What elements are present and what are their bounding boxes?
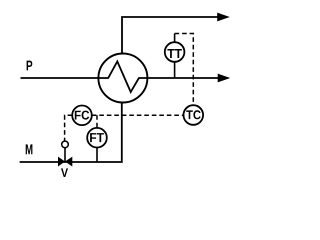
wire FT stem to M line bbox=[96, 147, 98, 162]
label valve V bbox=[61, 168, 68, 177]
wire valve actuator stem bbox=[64, 148, 66, 162]
wire stream M line with riser to exchanger bottom bbox=[20, 102, 122, 162]
signal dashed TT to TC bbox=[175, 34, 194, 106]
label stream P bbox=[27, 61, 33, 71]
valve V body bbox=[58, 157, 65, 167]
wire stream P outlet line bbox=[139, 77, 219, 79]
signal dashed FC to TC bbox=[92, 114, 184, 116]
heat exchanger coil zigzag bbox=[99, 61, 147, 92]
wire TT top stub bbox=[174, 34, 176, 43]
wire stream P inlet line bbox=[21, 77, 109, 79]
arrowhead top outlet bbox=[217, 13, 230, 22]
arrowhead stream P outlet bbox=[218, 74, 231, 83]
instrument FC bbox=[72, 106, 92, 126]
instrument TT bbox=[165, 42, 185, 62]
signal dashed FC to valve actuator bbox=[65, 115, 73, 141]
heat exchanger bbox=[98, 54, 147, 103]
valve actuator circle bbox=[62, 141, 69, 148]
instrument FT bbox=[87, 128, 107, 148]
signal dashed FT tap bbox=[96, 115, 98, 128]
wire TT stem to P line bbox=[174, 62, 176, 78]
wire top outlet line from exchanger to arrow bbox=[122, 17, 218, 54]
label stream M bbox=[26, 144, 33, 154]
instrument TC bbox=[184, 105, 204, 125]
